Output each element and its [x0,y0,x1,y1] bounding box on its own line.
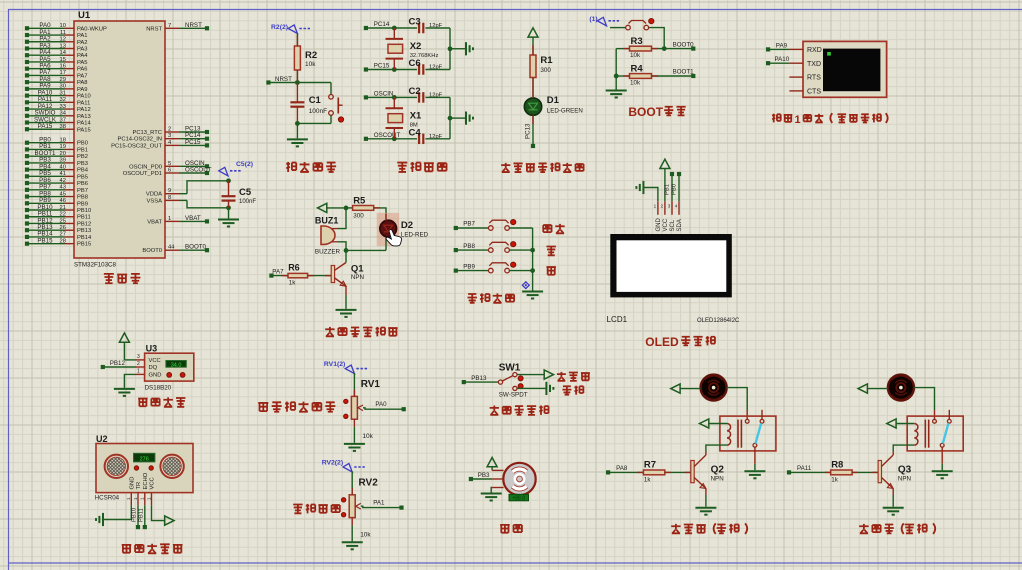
svg-text:CTS: CTS [807,89,821,96]
svg-text:PA1: PA1 [373,500,385,507]
svg-text:GND: GND [656,218,662,232]
svg-text:34.0: 34.0 [171,362,182,368]
svg-text:12pF: 12pF [429,92,443,98]
svg-text:29: 29 [60,77,66,83]
svg-text:41: 41 [60,171,66,177]
svg-text:RV2: RV2 [359,477,379,488]
svg-text:PA14: PA14 [77,121,92,127]
svg-text:R7: R7 [644,460,656,471]
svg-text:8M: 8M [410,123,418,129]
svg-text:U3: U3 [146,344,158,354]
svg-text:PB6: PB6 [77,181,88,187]
svg-text:16: 16 [60,63,66,69]
svg-text:10k: 10k [360,531,371,538]
svg-text:46: 46 [60,198,66,204]
svg-text:1k: 1k [831,476,839,483]
svg-text:PA0-WKUP: PA0-WKUP [77,26,107,32]
svg-text:VBAT: VBAT [147,219,162,225]
svg-text:26: 26 [60,225,66,231]
svg-text:PB5: PB5 [77,174,88,180]
svg-text:PB0: PB0 [672,184,678,195]
svg-text:R6: R6 [288,262,300,272]
svg-text:13: 13 [60,43,66,49]
svg-text:PB2: PB2 [77,154,88,160]
svg-text:21: 21 [60,205,66,211]
svg-text:300: 300 [353,213,364,220]
svg-text:37: 37 [60,117,66,123]
svg-text:12: 12 [60,37,66,43]
svg-text:PA9: PA9 [77,87,88,93]
svg-text:PC15: PC15 [185,139,201,146]
svg-text:1: 1 [137,369,140,375]
svg-text:BUZ1: BUZ1 [315,216,339,226]
svg-text:PB12: PB12 [77,221,91,227]
svg-text:PB10: PB10 [77,208,91,214]
svg-text:LED-RED: LED-RED [401,232,429,239]
svg-text:12pF: 12pF [429,134,443,140]
svg-text:R2(2): R2(2) [271,24,288,31]
svg-text:PA6: PA6 [77,67,88,73]
svg-text:OLED12864I2C: OLED12864I2C [697,318,740,324]
svg-text:SW1: SW1 [499,363,521,374]
svg-text:4: 4 [675,204,678,209]
svg-text:R4: R4 [631,63,644,74]
svg-text:PB13: PB13 [471,375,487,382]
svg-text:D2: D2 [401,220,413,231]
svg-text:10k: 10k [362,433,373,440]
svg-text:12pF: 12pF [429,23,443,29]
svg-text:R1: R1 [540,55,553,66]
svg-text:19: 19 [60,144,66,150]
svg-text:+88.8: +88.8 [512,496,525,502]
svg-text:22: 22 [60,212,66,218]
svg-text:X1: X1 [410,110,422,121]
svg-text:45: 45 [60,191,66,197]
svg-text:5: 5 [168,161,171,167]
svg-text:VCC: VCC [150,477,156,489]
svg-text:Q3: Q3 [898,465,912,476]
svg-text:PB9: PB9 [77,201,88,207]
svg-text:PA7: PA7 [272,268,284,275]
svg-text:VCC: VCC [149,358,161,364]
svg-text:DQ: DQ [149,365,158,371]
svg-text:SCL: SCL [670,219,676,231]
svg-text:PA10: PA10 [775,56,790,63]
svg-text:D1: D1 [547,95,560,106]
svg-text:PB1: PB1 [77,147,88,153]
svg-text:PB4: PB4 [77,168,89,174]
svg-text:NPN: NPN [711,476,724,483]
svg-text:1: 1 [146,497,151,500]
svg-text:C5: C5 [239,187,252,198]
svg-text:PB14: PB14 [77,235,92,241]
svg-text:PB7: PB7 [463,221,475,228]
svg-text:31: 31 [60,90,66,96]
svg-text:27: 27 [60,232,66,238]
svg-text:SDA: SDA [677,219,683,231]
svg-text:NRST: NRST [185,22,202,29]
svg-text:20: 20 [60,151,66,157]
svg-text:11: 11 [60,30,66,36]
svg-text:PA15: PA15 [77,127,91,133]
svg-text:PB10: PB10 [132,508,138,522]
svg-text:VBAT: VBAT [185,215,201,222]
svg-text:PB8: PB8 [463,243,475,250]
svg-text:PA8: PA8 [616,465,628,472]
svg-text:30: 30 [60,84,66,90]
svg-text:PA5: PA5 [77,60,88,66]
svg-text:PB7: PB7 [77,188,88,194]
svg-text:PA2: PA2 [77,40,88,46]
svg-text:OSCOUT_PD1: OSCOUT_PD1 [123,171,162,177]
svg-text:12pF: 12pF [429,65,443,71]
svg-text:PA13: PA13 [77,114,91,120]
svg-text:1: 1 [133,497,138,500]
svg-text:PA10: PA10 [77,94,91,100]
svg-text:PB3: PB3 [478,472,490,479]
svg-text:NRST: NRST [146,26,162,32]
svg-text:SW-SPDT: SW-SPDT [499,392,528,399]
svg-text:PA8: PA8 [77,80,88,86]
svg-text:PA0: PA0 [375,401,387,408]
svg-text:PC13: PC13 [525,123,532,139]
svg-text:8: 8 [168,195,171,201]
svg-text:PB15: PB15 [37,237,53,244]
svg-text:39: 39 [60,158,66,164]
svg-text:BOOT1: BOOT1 [673,69,695,76]
svg-text:STM32F103C8: STM32F103C8 [74,262,117,269]
svg-text:OLED: OLED [645,335,679,349]
svg-text:PC13_RTC: PC13_RTC [132,130,162,136]
svg-text:42: 42 [60,178,66,184]
svg-text:1: 1 [168,216,171,222]
svg-text:276: 276 [140,457,149,463]
svg-text:BOOT0: BOOT0 [673,41,695,48]
svg-text:PC14: PC14 [374,21,390,28]
svg-text:10: 10 [60,23,66,29]
svg-text:PB3: PB3 [77,161,88,167]
svg-text:DS18B20: DS18B20 [145,385,172,392]
svg-text:100nF: 100nF [239,199,256,205]
svg-text:BOOT: BOOT [628,105,663,119]
svg-text:U2: U2 [96,434,108,444]
svg-text:C4: C4 [409,128,422,139]
svg-text:OSCIN_PD0: OSCIN_PD0 [129,164,162,170]
svg-text:(1): (1) [589,16,597,23]
svg-text:PA4: PA4 [77,53,88,59]
svg-text:3: 3 [668,204,671,209]
svg-text:PB13: PB13 [77,228,91,234]
svg-text:OSCOUT: OSCOUT [374,132,401,139]
svg-text:1: 1 [140,497,145,500]
svg-text:BUZZER: BUZZER [315,249,341,256]
svg-text:TXD: TXD [807,61,821,68]
svg-text:GND: GND [149,373,162,379]
svg-text:NPN: NPN [351,274,364,281]
svg-text:C3: C3 [409,17,421,28]
svg-text:RV1: RV1 [361,379,381,390]
svg-text:GND: GND [130,477,136,490]
svg-text:PA7: PA7 [77,73,88,79]
svg-text:NPN: NPN [898,476,911,483]
svg-text:7: 7 [168,23,171,29]
svg-text:1k: 1k [289,280,297,287]
svg-text:10k: 10k [305,61,316,68]
svg-text:1: 1 [654,204,657,209]
svg-text:25: 25 [60,218,66,224]
svg-text:C5(2): C5(2) [236,161,253,168]
svg-text:40: 40 [60,164,66,170]
svg-text:PC15: PC15 [374,63,390,70]
svg-text:R8: R8 [831,460,843,471]
svg-text:1k: 1k [644,476,652,483]
svg-text:PC14-OSC32_IN: PC14-OSC32_IN [118,137,162,143]
svg-text:C1: C1 [309,95,322,106]
svg-text:3: 3 [168,133,171,139]
svg-text:Q2: Q2 [711,465,725,476]
svg-text:PB1: PB1 [665,184,671,195]
svg-text:ECHO: ECHO [143,472,149,489]
svg-text:LCD1: LCD1 [607,315,628,324]
svg-text:BOOT0: BOOT0 [185,244,207,251]
svg-text:R3: R3 [631,36,643,47]
svg-text:28: 28 [60,238,66,244]
svg-text:PB12: PB12 [110,360,126,367]
svg-text:PA3: PA3 [77,46,88,52]
svg-text:100nF: 100nF [309,108,327,115]
svg-text:6: 6 [168,168,171,174]
svg-text:1: 1 [126,497,131,500]
svg-text:PA12: PA12 [77,107,91,113]
svg-text:C6: C6 [409,58,421,69]
svg-text:RV2(2): RV2(2) [322,459,343,466]
svg-text:PA1: PA1 [77,33,88,39]
svg-text:R2: R2 [305,50,317,61]
svg-text:2: 2 [137,361,140,367]
svg-text:32: 32 [60,97,66,103]
svg-text:PB0: PB0 [77,141,88,147]
svg-text:34: 34 [60,111,67,117]
svg-text:33: 33 [60,104,66,110]
svg-text:TR: TR [136,482,142,490]
svg-text:300: 300 [540,67,551,74]
svg-text:10k: 10k [630,52,641,59]
svg-text:15: 15 [60,57,66,63]
svg-text:PB8: PB8 [77,195,88,201]
svg-text:PA11: PA11 [77,100,90,106]
svg-text:PA15: PA15 [38,123,53,130]
svg-text:3: 3 [137,354,140,360]
svg-text:VSSA: VSSA [147,198,163,204]
svg-text:PB11: PB11 [138,508,144,522]
svg-text:PB15: PB15 [77,242,91,248]
svg-text:RV1(2): RV1(2) [324,361,345,368]
svg-text:PA11: PA11 [797,465,812,472]
svg-text:VCC: VCC [663,218,669,231]
svg-text:RXD: RXD [807,47,822,54]
svg-text:10k: 10k [630,79,641,86]
svg-text:PB11: PB11 [77,215,91,221]
svg-text:2: 2 [168,127,171,133]
svg-text:RTS: RTS [807,75,821,82]
svg-text:VDDA: VDDA [146,192,162,198]
svg-text:43: 43 [60,185,66,191]
svg-text:R5: R5 [353,195,366,206]
svg-text:LED-GREEN: LED-GREEN [547,108,583,115]
svg-text:PB9: PB9 [463,263,475,270]
svg-text:BOOT0: BOOT0 [142,248,162,254]
svg-text:NRST: NRST [275,76,292,83]
svg-text:HCSR04: HCSR04 [95,494,120,501]
svg-text:X2: X2 [410,41,422,52]
svg-text:18: 18 [60,138,66,144]
svg-text:17: 17 [60,70,66,76]
svg-text:14: 14 [60,50,67,56]
svg-text:2: 2 [661,204,664,209]
svg-text:OSCIN: OSCIN [374,90,394,97]
svg-text:32.768KHz: 32.768KHz [410,53,439,59]
svg-text:OSCOUT: OSCOUT [185,167,212,174]
svg-text:9: 9 [168,188,171,194]
svg-text:U1: U1 [78,10,91,21]
svg-text:1: 1 [795,114,801,126]
svg-text:44: 44 [168,245,175,251]
svg-text:C2: C2 [409,86,421,97]
svg-text:PA9: PA9 [776,42,788,49]
svg-text:PC15-OSC32_OUT: PC15-OSC32_OUT [111,143,162,149]
svg-text:38: 38 [60,124,66,130]
